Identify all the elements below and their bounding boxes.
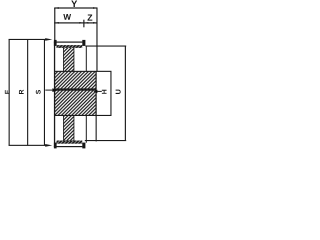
arrow W right — [79, 22, 83, 24]
teeth band bottom — [57, 141, 83, 144]
web column bottom — [63, 115, 74, 140]
hub right face — [96, 71, 97, 116]
left extension line bottom with arrow — [9, 145, 46, 146]
U top extension — [96, 71, 111, 72]
outer top extension — [85, 46, 126, 47]
hub top edge — [54, 71, 96, 72]
label Z — [87, 15, 92, 21]
label S — [36, 90, 41, 94]
hub block — [55, 71, 97, 115]
flange nub top-left — [54, 40, 57, 46]
left extension line top with arrow — [9, 39, 46, 40]
label W — [63, 14, 71, 20]
U bottom extension — [96, 115, 111, 116]
flange nub bottom-right — [82, 143, 85, 149]
hub face extension lower — [96, 115, 97, 141]
flange face line lower right — [86, 115, 87, 142]
H leader right — [97, 91, 102, 92]
pulley left face — [54, 41, 55, 147]
arrow Y left — [54, 7, 58, 9]
dimension line S — [44, 39, 45, 146]
arrow Z left — [84, 22, 88, 24]
flange nub bottom-left — [54, 143, 57, 149]
label E — [5, 90, 10, 94]
bore line — [55, 88, 97, 90]
label R — [19, 90, 24, 94]
arrow W left — [54, 22, 58, 24]
tick between W and Z — [83, 20, 84, 28]
outer bottom extension — [85, 140, 126, 141]
extension line left (Y/W) — [54, 8, 55, 42]
flange OD line top — [54, 42, 83, 43]
H leader left — [45, 90, 54, 91]
dimension line E — [9, 39, 10, 146]
flange OD line bottom — [54, 146, 83, 147]
extension line right (Y/Z) — [96, 8, 97, 71]
label H — [102, 90, 107, 94]
flange face line upper right — [86, 46, 87, 71]
arrow Y right — [93, 7, 97, 9]
teeth band top — [57, 45, 83, 48]
label U — [116, 90, 121, 94]
dimension line Y — [54, 7, 97, 8]
dimension line R — [27, 39, 28, 146]
flange nub top-right — [82, 40, 85, 46]
outer dimension line right — [125, 46, 126, 141]
label Y — [71, 1, 77, 7]
hub bottom edge — [54, 115, 96, 116]
U dimension line — [110, 71, 111, 116]
web column top — [63, 48, 74, 71]
dimension line W/Z — [54, 22, 97, 23]
arrow Z right — [93, 22, 97, 24]
